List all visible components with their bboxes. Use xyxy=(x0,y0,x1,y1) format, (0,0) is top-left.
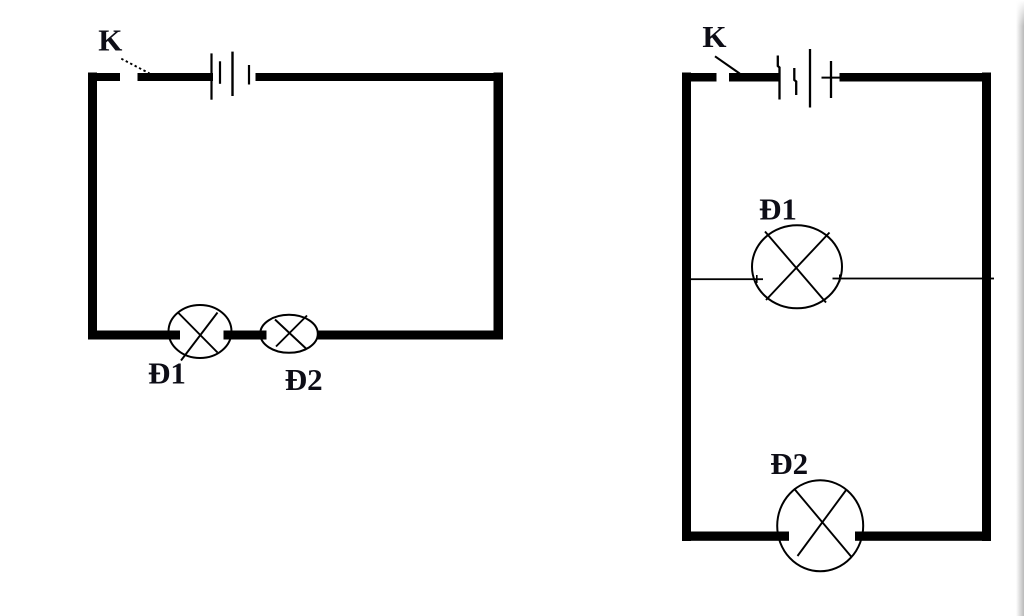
svg-text:Đ1: Đ1 xyxy=(759,192,797,227)
wire: right circuit top segment (battery to right corner) xyxy=(840,73,992,82)
wire: left circuit top segment (switch to battery) xyxy=(138,73,214,81)
wire: right circuit bottom segment (corner to lamp D2) xyxy=(682,532,789,541)
wire: left circuit top segment (battery to right corner) xyxy=(256,73,504,81)
svg-text:K: K xyxy=(98,23,122,58)
wire: left circuit bottom segment (corner to lamp D1) xyxy=(88,331,180,340)
junction tick left of lamp D1 xyxy=(756,275,758,283)
wire: left circuit bottom segment (lamp D1 to lamp D2) xyxy=(224,331,267,340)
wire: left circuit top segment (corner to switch) xyxy=(88,73,120,81)
wire: right circuit top segment (corner to switch) xyxy=(682,73,717,82)
wire: left circuit left vertical xyxy=(88,73,97,340)
wire: right circuit middle branch left (thin) xyxy=(691,278,763,280)
wire: right circuit left vertical xyxy=(682,73,691,542)
lamp D2 (left circuit) xyxy=(260,315,318,353)
junction tick right of lamp D1 xyxy=(839,275,841,282)
wire: right circuit bottom segment (lamp D2 to right corner) xyxy=(855,532,991,541)
wire: left circuit right vertical xyxy=(494,73,504,340)
wire: right circuit top segment (switch to battery) xyxy=(729,73,781,82)
battery (left circuit) xyxy=(212,52,250,100)
switch K (right circuit, open blade) xyxy=(715,56,740,73)
switch K (left circuit, open blade) xyxy=(121,59,149,74)
wire: right circuit right vertical xyxy=(982,73,991,542)
lamp D2 (right circuit) xyxy=(777,480,863,571)
svg-text:Đ2: Đ2 xyxy=(285,362,323,397)
svg-text:K: K xyxy=(702,19,726,54)
wire: left circuit bottom segment (lamp D2 to right corner) xyxy=(317,331,503,340)
wire: right circuit middle branch right (thin) xyxy=(833,278,995,280)
lamp D1 (left circuit) xyxy=(169,305,232,361)
svg-text:Đ2: Đ2 xyxy=(770,446,808,481)
lamp D1 (right circuit) xyxy=(752,225,842,308)
battery (right circuit) xyxy=(778,49,840,108)
svg-text:Đ1: Đ1 xyxy=(148,355,186,390)
